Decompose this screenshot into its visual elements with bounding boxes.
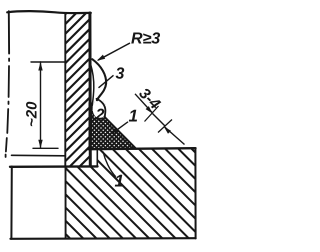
plate hatch — [0, 149, 281, 239]
weld bead inner curve — [91, 64, 94, 106]
weld bulb white — [93, 99, 106, 119]
dim ~20 line — [40, 62, 42, 148]
dim ~20 arrow up — [38, 62, 42, 71]
dim 3-4 lower shaft — [164, 126, 185, 144]
plate right edge — [194, 148, 196, 238]
dim ~20 text — [26, 102, 37, 126]
label 3 leader — [99, 75, 114, 88]
shell wall right edge — [88, 13, 91, 166]
label 1 lower — [115, 175, 123, 187]
label 2 — [96, 109, 105, 120]
shell wall hatch — [64, 0, 92, 182]
dim ~20 top extension line — [31, 61, 66, 63]
label R>=3 — [131, 32, 160, 43]
top edge — [7, 11, 91, 13]
weld bulb outline — [97, 99, 106, 117]
leader R — [98, 43, 130, 60]
dim 3-4 arrow B — [164, 127, 171, 134]
label 1 lower leader — [103, 152, 116, 177]
weld apex dark patch — [89, 103, 93, 148]
dim ~20 bottom extension line — [33, 147, 58, 149]
dim 3-4 tick E2 — [158, 120, 172, 133]
dim ~20 — [31, 62, 66, 148]
shell wall left edge — [64, 13, 66, 166]
weld bead right curve — [92, 59, 106, 100]
plate top surface — [89, 148, 196, 149]
groove right wall — [96, 149, 98, 167]
dim 3-4 mid segment — [153, 114, 166, 127]
dim 3-4 arrow A — [146, 106, 153, 113]
leader R arrowhead — [97, 55, 105, 61]
axis dash-dot — [6, 59, 10, 158]
bottom edge — [11, 237, 196, 240]
hub left edge — [10, 167, 12, 239]
label 3 — [116, 67, 125, 78]
plate hub boundary — [65, 167, 67, 239]
label 1 upper — [129, 110, 137, 122]
weld hypotenuse outline — [105, 117, 137, 149]
inner surface line — [12, 154, 66, 157]
groove bottom thick line — [10, 165, 98, 168]
left edge solid — [8, 11, 10, 53]
label 1 upper leader — [112, 122, 128, 134]
dim 3-4 tick E1 — [145, 106, 159, 122]
dim ~20 arrow down — [38, 140, 42, 149]
dim 3-4 text — [138, 87, 161, 110]
dim 3-4 line upper — [135, 94, 153, 113]
weld fillet crosshatch — [41, 101, 179, 149]
